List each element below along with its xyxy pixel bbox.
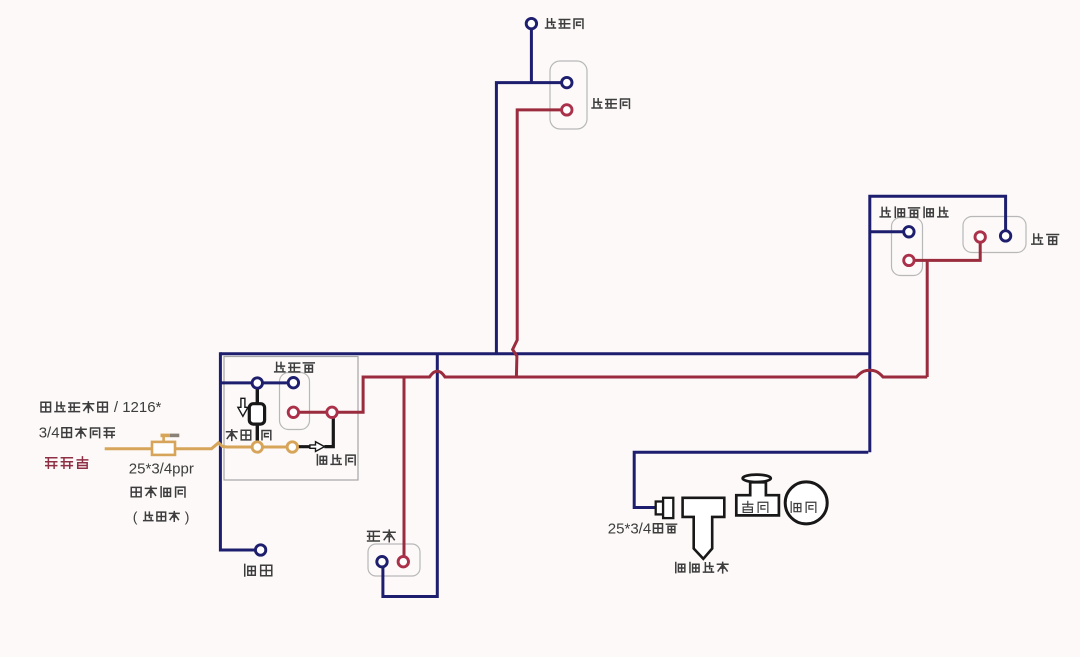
solenoid valve 电磁阀 link from washbasin cold xyxy=(256,383,259,404)
node: shower cold port xyxy=(377,557,387,567)
wire: main cold horizontal xyxy=(220,352,869,355)
node: heater cold port xyxy=(904,227,914,237)
wire: hot to shower xyxy=(403,377,406,562)
node: solar valve junction B xyxy=(287,442,297,452)
solenoid valve body xyxy=(249,404,264,424)
node: basin hot port xyxy=(975,232,985,242)
wire: right cold riser xyxy=(870,196,1006,452)
wire: washing machine riser xyxy=(530,24,533,83)
node: washbasin cold port A xyxy=(252,378,262,388)
label 阀 xyxy=(262,430,271,439)
node: heater hot port xyxy=(904,255,914,265)
node: basin cold port xyxy=(1000,231,1010,241)
pre-filter 前置过滤 body xyxy=(683,498,725,559)
label 电磁 阀 xyxy=(227,430,237,440)
label 台盆 xyxy=(1032,234,1043,244)
svg-text:3/4: 3/4 xyxy=(39,425,60,442)
solenoid valve lower link xyxy=(256,424,259,447)
label 淋浴 xyxy=(368,531,380,541)
water meter 水表 xyxy=(785,482,827,524)
label 太阳能 xyxy=(46,458,57,468)
label 水表 xyxy=(791,502,801,513)
wire: heater hot to main and basin xyxy=(909,237,980,377)
node: laundry sink cold port xyxy=(562,77,572,87)
svg-text:): ) xyxy=(185,509,190,525)
gate valve 闸阀 body xyxy=(736,482,779,515)
label 活接球阀 xyxy=(131,487,141,496)
wire: top tee to laundry sink cold port xyxy=(496,83,566,354)
label 前置过滤 xyxy=(676,563,685,573)
wire: main hot horizontal with hops xyxy=(363,370,927,377)
svg-text:/ 1216*: / 1216* xyxy=(110,399,162,416)
node: washbasin cold port B xyxy=(288,378,298,388)
wire: left drop to toilet xyxy=(220,352,260,550)
fixture box 淋浴 xyxy=(368,544,420,576)
wire: laundry sink hot drop with hop over cold main xyxy=(513,110,567,377)
label 马桶 xyxy=(245,564,256,576)
fixture box 燃气热水器 ports xyxy=(892,218,923,276)
label 铝塑管接头 / 1216* xyxy=(41,402,51,412)
svg-text:25*3/4: 25*3/4 xyxy=(608,521,651,538)
big box around 洗脸盆 assembly xyxy=(224,357,358,481)
wire: bottom cold feed to meter assembly xyxy=(634,452,868,507)
label 燃气热水器 xyxy=(880,207,890,216)
node: washing machine cold port xyxy=(526,18,536,28)
fixture box 洗衣池 xyxy=(550,61,587,129)
node: laundry sink hot port xyxy=(562,105,572,115)
node: washbasin hot port xyxy=(288,407,298,417)
check valve link up to hot port xyxy=(324,412,333,446)
fitting 25*3/4内丝 xyxy=(656,502,663,515)
node: solar valve junction A xyxy=(252,442,262,452)
svg-text:(: ( xyxy=(133,509,138,525)
wire: stub to heater cold port xyxy=(870,230,909,233)
fixture box 台盆 xyxy=(963,217,1026,253)
label 闸阀 xyxy=(743,501,753,512)
node: shower hot port xyxy=(398,557,408,567)
gate valve handwheel xyxy=(743,475,771,482)
label 洗衣机 xyxy=(546,19,556,28)
wire: washbasin branch inside box xyxy=(220,381,293,384)
node: check valve hot junction xyxy=(327,407,337,417)
flow arrow (down) beside solenoid valve xyxy=(238,398,248,416)
svg-text:25*3/4ppr: 25*3/4ppr xyxy=(129,461,194,478)
wire: gold link between valve circles xyxy=(257,446,292,449)
ball valve 25*3/4ppr body xyxy=(152,442,175,455)
node: toilet cold port xyxy=(255,545,265,555)
wire: hot left end to washbasin valve circles xyxy=(293,376,363,413)
wire: shower cold loop xyxy=(383,354,437,597)
wire: solar hot line with ball valve and hop xyxy=(105,443,258,449)
label 洗衣池 xyxy=(592,99,602,108)
label 洗脸盆 xyxy=(275,362,285,372)
label 止回阀 xyxy=(317,455,326,465)
inner box 洗脸盆 ports xyxy=(280,373,310,430)
ball valve handle xyxy=(162,436,165,442)
check valve 止回阀 arrow (right) xyxy=(310,442,325,452)
